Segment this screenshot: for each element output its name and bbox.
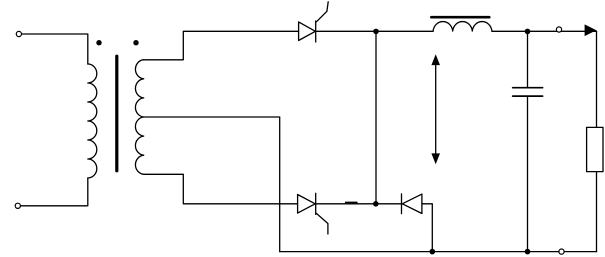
wire: inductor to output corner [492,30,597,32]
wire: right side down to load resistor [596,31,598,127]
thyristor SCR1 gate [316,2,328,22]
inductor L1 core bar [431,16,489,19]
wire: secondary top to SCR1 anode [144,31,299,60]
wire: resistor bottom to bottom rail [596,172,598,252]
wire: SCR1 cathode to inductor [316,30,433,32]
wire: node A down to node C [375,31,377,203]
inductor L1 winding [433,22,492,32]
voltage double-headed arrow shaft [435,60,437,159]
wire: diode D1 anode to bottom rail [422,204,432,252]
wire: node C to diode D1 cathode [376,203,402,205]
junction dot (diode leg / bottom rail) [430,249,436,255]
thyristor SCR2 triangle [298,195,316,214]
diode D1 cathode bar [401,194,403,214]
thyristor SCR2 gate [316,213,328,234]
node B junction dot [525,29,531,35]
wire: bottom rail [280,251,597,253]
capacitor C1 bottom lead [527,96,529,252]
polarity dot (secondary) [133,40,138,45]
node C junction dot [373,201,379,207]
capacitor C1 top plate [513,87,543,89]
input terminal J1 (top left) [16,31,21,36]
transformer T1 primary winding [88,64,97,178]
capacitor C1 top lead [527,32,529,88]
wire: secondary center tap to bottom rail [144,117,280,252]
transformer T1 core [115,56,118,171]
load resistor R1 [587,127,603,171]
voltage arrow head (up) [431,54,440,65]
thyristor SCR1 cathode bar [315,21,317,42]
wire: J1 to primary top [22,34,88,64]
thyristor SCR1 triangle [299,22,316,41]
voltage arrow head (down) [431,153,440,164]
node A junction dot [373,29,379,35]
wire: secondary bottom to SCR2 anode [144,174,298,204]
output terminal (top, open circle on wire) [556,27,561,32]
input terminal J2 (bottom left) [15,203,20,208]
polarity dash mark [346,202,357,204]
capacitor C1 bottom plate [513,95,543,97]
output current arrow [585,24,597,36]
diode D1 triangle [402,194,422,213]
junction dot (capacitor leg / bottom rail) [525,249,531,255]
transformer T1 secondary winding [135,60,143,175]
output terminal (bottom, open circle on wire) [559,249,564,254]
polarity dot (primary) [96,40,101,45]
wire: J2 to primary bottom [21,178,88,206]
wire: SCR2 cathode to node C [316,203,376,205]
thyristor SCR2 cathode bar [315,193,317,214]
